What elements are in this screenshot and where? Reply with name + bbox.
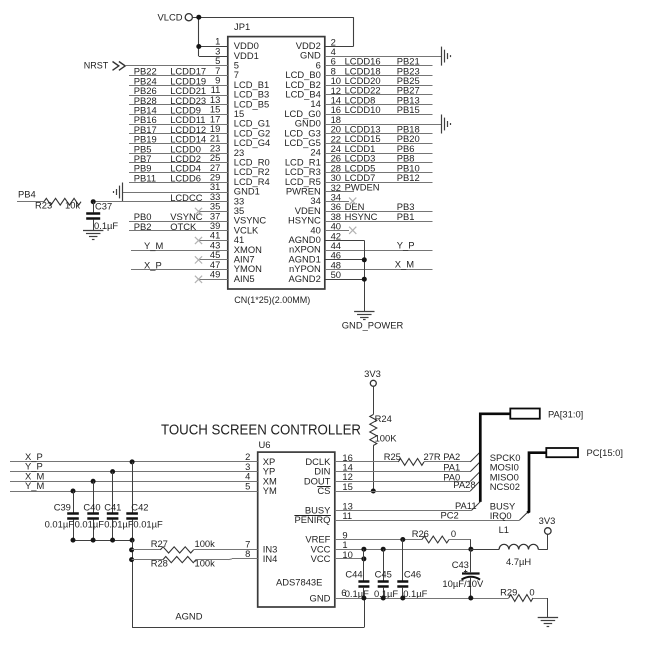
svg-text:0.01µF: 0.01µF — [104, 519, 134, 530]
svg-text:U6: U6 — [259, 439, 271, 450]
connector JP1 body — [228, 21, 325, 305]
svg-text:PB15: PB15 — [397, 104, 420, 115]
JP1 pin 42 number and inner label AGND0 — [288, 230, 341, 245]
JP1 pin 38 number and inner label HSYNC — [288, 211, 341, 226]
inductor L1 4.7uH — [471, 524, 548, 567]
svg-text:0.1µF: 0.1µF — [374, 588, 398, 599]
no-connect JP1 pin 41 — [195, 237, 228, 244]
svg-text:C40: C40 — [83, 501, 100, 512]
JP1 pin 50 number and inner label AGND2 — [288, 269, 341, 284]
svg-text:AIN5: AIN5 — [234, 273, 255, 284]
JP1 pin 11 number and inner label LCD_B3 — [211, 84, 270, 99]
wire JP1 pin 14 net LCDD8/PB13 — [325, 94, 433, 105]
JP1 pin 1 number and inner label VDD0 — [215, 36, 259, 51]
svg-text:C42: C42 — [131, 501, 148, 512]
JP1 pin 37 number and inner label VSYNC — [210, 210, 266, 225]
JP1 pin 45 number and inner label AIN7 — [210, 249, 255, 264]
svg-text:Y_P: Y_P — [397, 239, 415, 250]
svg-text:4.7µH: 4.7µH — [506, 556, 531, 567]
svg-text:0.1µF: 0.1µF — [94, 220, 118, 231]
JP1 pin 39 number and inner label VCLK — [210, 220, 259, 235]
svg-text:PB1: PB1 — [397, 211, 415, 222]
JP1 pin 28 number and inner label LCD_R3 — [285, 162, 341, 177]
wire net Y_M on JP1 pin 43 — [131, 240, 228, 251]
JP1 pin 6 number and inner label 6 — [316, 56, 336, 71]
JP1 pin 18 number and inner label GND0 — [295, 114, 341, 129]
wire AGND vertical and bottom rail — [132, 540, 364, 627]
U6 pin 12 DOUT — [304, 471, 353, 486]
JP1 pin 35 number and inner label 35 — [210, 201, 244, 216]
svg-text:PB12: PB12 — [397, 172, 420, 183]
port NRST into pin 5 — [84, 60, 228, 70]
wire net X_P into U6 — [10, 451, 258, 464]
JP1 pin 30 number and inner label LCD_R5 — [285, 172, 341, 187]
U6 pin 13 BUSY — [305, 500, 353, 515]
JP1 pin 20 number and inner label LCD_G3 — [284, 124, 341, 139]
wire JP1 pin 15 net PB14/LCDD9 — [129, 105, 228, 116]
wire JP1 pin 27 net PB9/LCDD4 — [129, 163, 228, 174]
wire U6 pin 12 DOUT / bus entry PA0 — [335, 472, 480, 483]
wire AGND rail under C39-C42 — [71, 538, 135, 543]
wire JP1 pin 16 net LCDD10/PB15 — [325, 104, 433, 115]
wire net LCDCC on JP1 pin 33 — [93, 192, 228, 203]
wire JP1 pin 20 net LCDD13/PB18 — [325, 124, 433, 135]
svg-text:LCDD6: LCDD6 — [170, 172, 201, 183]
svg-text:Y_M: Y_M — [25, 480, 44, 491]
svg-text:PWDEN: PWDEN — [345, 182, 380, 193]
power node 3V3 top — [364, 368, 381, 386]
junction R24 to CS net — [371, 489, 376, 494]
JP1 pin 9 number and inner label LCD_B1 — [215, 75, 269, 90]
wire JP1 pin 7 net PB22/LCDD17 — [129, 66, 228, 77]
resistor R25 27R — [384, 451, 471, 465]
svg-text:100k: 100k — [195, 538, 216, 549]
JP1 pin 8 number and inner label LCD_B0 — [285, 65, 335, 80]
svg-text:R28: R28 — [151, 558, 168, 569]
JP1 pin 13 number and inner label LCD_B5 — [210, 94, 269, 109]
active-low overline for PENIRQ pin 11 — [294, 515, 330, 517]
resistor R29 0 — [500, 586, 548, 617]
svg-text:C45: C45 — [375, 568, 392, 579]
svg-text:0.01µF: 0.01µF — [133, 519, 163, 530]
bus PA to connector — [480, 414, 510, 502]
wire net X_M on JP1 pin 48 — [325, 259, 433, 270]
wire JP1 pin 13 net PB28/LCDD23 — [129, 95, 228, 106]
JP1 pin 16 number and inner label LCD_G0 — [284, 104, 341, 119]
net labels SPI signals — [490, 452, 521, 521]
svg-text:PB2: PB2 — [134, 221, 152, 232]
wire JP1 pin 9 net PB24/LCDD19 — [129, 75, 228, 86]
ground GND_POWER — [342, 312, 404, 331]
svg-text:3V3: 3V3 — [364, 368, 381, 379]
JP1 pin 14 number and inner label 14 — [310, 95, 341, 110]
svg-text:JP1: JP1 — [234, 21, 250, 32]
bus PC to connector — [527, 453, 546, 513]
svg-text:3V3: 3V3 — [539, 515, 556, 526]
wire JP1 pin 25 net PB7/LCDD2 — [129, 153, 228, 164]
svg-text:R24: R24 — [375, 413, 392, 424]
wire JP1 pin 11 net PB26/LCDD21 — [129, 85, 228, 96]
wire U6 pins 1,10 VCC — [335, 547, 474, 562]
JP1 pin 2 number and inner label VDD2 — [296, 36, 336, 51]
U6 pin 5 YM — [245, 480, 277, 496]
svg-text:0.01µF: 0.01µF — [75, 519, 105, 530]
JP1 pin 41 number and inner label 41 — [210, 230, 244, 245]
wire JP1 pin 22 net LCDD15/PB20 — [325, 133, 433, 144]
svg-text:Y_M: Y_M — [144, 240, 163, 251]
svg-text:R29: R29 — [500, 587, 517, 598]
svg-text:AGND: AGND — [175, 611, 202, 622]
JP1 pin 19 number and inner label LCD_G2 — [210, 123, 270, 138]
no-connect JP1 pin 34 — [325, 198, 357, 205]
JP1 pin 32 number and inner label PWREN — [286, 182, 341, 197]
U6 pin 8 IN4 — [245, 548, 277, 564]
ground at JP1 pin 18 GND0 — [325, 115, 451, 134]
U6 pin 3 YP — [245, 461, 275, 477]
JP1 pin 12 number and inner label LCD_B4 — [285, 85, 341, 100]
svg-text:49: 49 — [210, 269, 220, 280]
JP1 pin 48 number and inner label nYPON — [289, 259, 341, 274]
wire AGND pins 42,46,50 to GND_POWER — [325, 240, 367, 311]
no-connect JP1 pin 49 — [195, 276, 228, 283]
power node 3V3 right — [539, 515, 556, 534]
svg-text:VCC: VCC — [311, 553, 331, 564]
wire JP1 pin 29 net PB11/LCDD6 — [129, 172, 228, 183]
svg-text:PC[15:0]: PC[15:0] — [587, 447, 623, 458]
svg-text:100k: 100k — [195, 558, 216, 569]
capacitor C40 0.01uF — [75, 481, 105, 540]
wire net X_M into U6 — [10, 470, 258, 483]
capacitor C41 0.01uF — [104, 472, 134, 540]
svg-text:GND: GND — [310, 592, 331, 603]
wire JP1 pin 23 net PB5/LCDD0 — [129, 143, 228, 154]
power node VLCD — [157, 11, 192, 22]
wire net X_P on JP1 pin 47 — [131, 259, 228, 270]
JP1 pin 3 number and inner label VDD1 — [215, 45, 259, 60]
JP1 pin 24 number and inner label 24 — [310, 143, 341, 158]
wire JP1 pin 28 net LCDD5/PB10 — [325, 162, 433, 173]
wire net Y_P into U6 — [10, 461, 258, 474]
wire JP1 pin 21 net PB19/LCDD14 — [129, 134, 228, 145]
U6 pin 7 IN3 — [245, 539, 277, 555]
wire JP1 pin 36 net DEN/PB3 — [325, 201, 433, 212]
svg-text:C43: C43 — [452, 559, 469, 570]
svg-text:0: 0 — [451, 528, 456, 539]
ground at R29 — [538, 618, 558, 627]
resistor R24 100K — [370, 386, 397, 491]
svg-text:R26: R26 — [412, 528, 429, 539]
wire JP1 pin 17 net PB16/LCDD11 — [129, 114, 228, 125]
U6 pin 1 VCC — [311, 539, 348, 554]
svg-text:AGND2: AGND2 — [288, 273, 320, 284]
bus port PA[31:0] — [510, 408, 583, 419]
JP1 pin 25 number and inner label LCD_R0 — [210, 152, 270, 167]
wire U6 pin 14 DIN / bus entry PA1 — [335, 462, 480, 473]
wire VLCD to JP1 pins 1,3 and pin 2 — [192, 15, 353, 57]
capacitor C46 0.1uF — [397, 540, 427, 599]
JP1 pin 10 number and inner label LCD_B2 — [285, 75, 341, 90]
JP1 pin 43 number and inner label XMON — [210, 239, 262, 254]
U6 pin 14 DIN — [314, 462, 353, 477]
U6 pin 6 GND — [310, 587, 347, 604]
IC U6 ADS7843E body — [258, 439, 335, 607]
wire net PWDEN on JP1 pin 32 — [325, 182, 380, 193]
capacitor C45 0.1uF — [374, 549, 398, 599]
svg-text:X_M: X_M — [395, 259, 414, 270]
JP1 pin 36 number and inner label VDEN — [295, 201, 341, 216]
JP1 pin 47 number and inner label YMON — [210, 259, 262, 274]
JP1 pin 44 number and inner label nXPON — [289, 240, 341, 255]
wire JP1 pin 8 net LCDD18/PB23 — [325, 65, 433, 76]
capacitor C42 0.01uF — [126, 462, 163, 540]
ground at JP1 pin 4 GND — [325, 47, 451, 66]
wire JP1 pin 19 net PB17/LCDD12 — [129, 124, 228, 135]
capacitor C39 0.01uF — [45, 491, 79, 540]
U6 pin 4 XM — [245, 471, 277, 487]
JP1 pin 26 number and inner label LCD_R1 — [285, 153, 341, 168]
svg-text:PB11: PB11 — [134, 172, 156, 183]
wire JP1 pin 26 net LCDD3/PB8 — [325, 153, 433, 164]
resistor R23 10k — [35, 198, 81, 210]
resistor R28 100k — [129, 557, 258, 569]
svg-text:R25: R25 — [384, 451, 401, 462]
svg-text:TOUCH SCREEN CONTROLLER: TOUCH SCREEN CONTROLLER — [161, 421, 361, 438]
svg-text:PB4: PB4 — [18, 188, 36, 199]
svg-text:LCDD10: LCDD10 — [345, 104, 381, 115]
svg-text:50: 50 — [331, 269, 341, 280]
wire JP1 pin 39 net PB2/OTCK — [129, 221, 228, 232]
active-low overline for CS pin 15 — [317, 486, 330, 488]
svg-text:YM: YM — [263, 485, 277, 496]
svg-text:ADS7843E: ADS7843E — [276, 577, 322, 588]
capacitor C43 10uF/10V polarized — [442, 549, 484, 598]
JP1 pin 17 number and inner label LCD_G1 — [210, 113, 270, 128]
JP1 pin 7 number and inner label 7 — [215, 65, 239, 80]
JP1 pin 33 number and inner label 33 — [210, 191, 244, 206]
resistor R26 0 — [412, 528, 471, 549]
svg-text:11: 11 — [342, 510, 352, 521]
svg-text:10k: 10k — [65, 199, 80, 210]
svg-text:L1: L1 — [499, 524, 509, 535]
wire net Y_M into U6 — [10, 480, 258, 493]
no-connect JP1 pin 40 — [325, 227, 357, 234]
JP1 pin 40 number and inner label 40 — [310, 221, 341, 236]
svg-text:LCDCC: LCDCC — [170, 192, 203, 203]
JP1 pin 31 number and inner label GND1 — [210, 181, 260, 196]
wire U6 pin 9 VREF — [335, 537, 422, 542]
svg-text:PA2: PA2 — [443, 451, 460, 462]
svg-text:27R: 27R — [424, 451, 441, 462]
wire U6 pin 16 DCLK — [335, 461, 399, 463]
U6 pin 16 DCLK — [305, 452, 352, 467]
U6 pin 2 XP — [245, 451, 275, 467]
JP1 pin 23 number and inner label 23 — [210, 142, 244, 157]
U6 pin 9 VREF — [305, 529, 347, 544]
JP1 pin 34 number and inner label 34 — [310, 192, 341, 207]
JP1 pin 5 number and inner label 5 — [215, 55, 239, 70]
svg-text:HSYNC: HSYNC — [345, 211, 378, 222]
svg-text:OTCK: OTCK — [170, 221, 197, 232]
svg-text:R27: R27 — [151, 538, 168, 549]
wire JP1 pin 38 net HSYNC/PB1 — [325, 211, 433, 222]
wire JP1 pin 6 net LCDD16/PB21 — [325, 56, 433, 67]
no-connect JP1 pin 45 — [195, 256, 228, 263]
bus port PC[15:0] — [546, 447, 623, 458]
U6 pin 11 PENIRQ — [294, 510, 352, 525]
JP1 pin 46 number and inner label AGND1 — [288, 250, 341, 265]
JP1 pin 29 number and inner label LCD_R4 — [210, 172, 270, 187]
svg-text:C39: C39 — [54, 501, 71, 512]
svg-text:0.01µF: 0.01µF — [45, 519, 75, 530]
ground below C37 — [83, 231, 103, 240]
svg-text:PC2: PC2 — [441, 510, 459, 521]
svg-text:C46: C46 — [404, 568, 421, 579]
svg-text:15: 15 — [342, 481, 352, 492]
svg-text:C44: C44 — [345, 568, 362, 579]
svg-text:NRST: NRST — [84, 60, 109, 70]
svg-text:NCS02: NCS02 — [490, 481, 520, 492]
junction node PB4/C37 — [91, 199, 96, 204]
svg-text:GND_POWER: GND_POWER — [342, 320, 404, 331]
JP1 pin 4 number and inner label GND — [300, 46, 336, 61]
JP1 pin 21 number and inner label LCD_G4 — [210, 133, 270, 148]
wire JP1 pin 12 net LCDD22/PB27 — [325, 85, 433, 96]
svg-text:100K: 100K — [375, 432, 398, 443]
ground at JP1 pin 31 GND1 — [114, 183, 228, 202]
U6 pin 15 CS — [317, 481, 352, 496]
wire JP1 pin 24 net LCDD1/PB6 — [325, 143, 433, 154]
svg-text:C37: C37 — [95, 201, 112, 212]
svg-text:X_P: X_P — [144, 259, 162, 270]
svg-text:0.1µF: 0.1µF — [403, 588, 427, 599]
svg-text:IRQ0: IRQ0 — [490, 510, 512, 521]
svg-text:IN4: IN4 — [263, 553, 278, 564]
svg-text:PA[31:0]: PA[31:0] — [548, 408, 583, 419]
JP1 pin 22 number and inner label LCD_G5 — [284, 133, 341, 148]
bus entry PA2 — [443, 451, 479, 462]
wire U6 pin 15 CS / bus entry PA28 — [335, 479, 480, 492]
svg-text:VLCD: VLCD — [157, 11, 182, 22]
svg-text:C41: C41 — [104, 501, 121, 512]
JP1 pin 49 number and inner label AIN5 — [210, 269, 255, 284]
svg-text:10µF/10V: 10µF/10V — [442, 578, 484, 589]
U6 pin 10 VCC — [311, 549, 353, 564]
capacitor C44 0.1uF — [345, 549, 370, 599]
wire GND rail from U6 pin 6 — [335, 596, 509, 601]
port PB4 wire — [17, 188, 44, 201]
wire JP1 pin 10 net LCDD20/PB25 — [325, 75, 433, 86]
capacitor C37 0.1uF — [86, 201, 118, 231]
wire U6 pin 11 PENIRQ / bus entry PC2 — [335, 510, 528, 521]
JP1 pin 15 number and inner label 15 — [210, 104, 244, 119]
wire JP1 pin 30 net LCDD7/PB12 — [325, 172, 433, 183]
wire JP1 pin 37 net PB0/VSYNC — [129, 211, 228, 222]
wire net Y_P on JP1 pin 44 — [325, 239, 433, 250]
svg-text:0: 0 — [529, 586, 534, 597]
svg-text:R23: R23 — [35, 199, 52, 210]
JP1 pin 27 number and inner label LCD_R2 — [210, 162, 270, 177]
no-connect JP1 pin 35 — [195, 208, 228, 215]
wire U6 pin 13 BUSY / bus entry PA11 — [335, 500, 480, 511]
svg-text:CN(1*25)(2.00MM): CN(1*25)(2.00MM) — [234, 295, 310, 305]
resistor R27 100k — [129, 538, 258, 553]
